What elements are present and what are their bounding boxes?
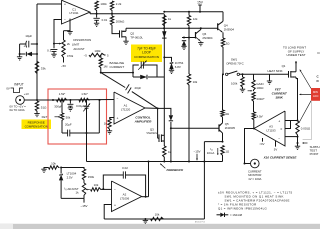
A3 0V stub — [262, 138, 264, 142]
svg-text:200kΩ: 200kΩ — [116, 19, 125, 23]
wire comp network right side — [98, 100, 100, 133]
wire C1 + input — [37, 3, 62, 5]
wire 1k clamp column — [163, 14, 165, 146]
ground tap on gate line — [269, 74, 271, 81]
svg-text:470k: 470k — [67, 54, 74, 58]
svg-text:10k: 10k — [94, 183, 99, 187]
svg-text:10µF: 10µF — [25, 34, 32, 38]
diode at input filter (1N4148) — [20, 53, 26, 55]
resistor 4.5k* — [252, 112, 255, 121]
op-amp A2 LT1006 — [112, 181, 142, 212]
wire BNC to input node — [24, 99, 53, 101]
thermal switch SW1 — [222, 73, 224, 75]
response compensation highlight (yellow) — [22, 120, 52, 130]
svg-text:100k: 100k — [100, 2, 107, 6]
svg-text:2N3904: 2N3904 — [224, 28, 235, 32]
svg-text:= 1N4148: = 1N4148 — [230, 213, 242, 217]
svg-text:FET: FET — [42, 115, 48, 119]
wire baseline node to compensation loop — [101, 72, 133, 74]
loop compensation highlight (yellow) — [131, 45, 162, 63]
svg-text:≈0V: ≈0V — [260, 142, 265, 146]
wire 15V rail — [164, 11, 223, 13]
resistor 10k to A2 inverting input — [102, 188, 112, 190]
diode legend 1N4148 — [217, 214, 221, 216]
resistor 3 ohm at Q5 emitter — [221, 110, 224, 118]
svg-text:100k: 100k — [94, 49, 101, 53]
resistor 33k — [35, 62, 38, 75]
transistor Q2 TP-0610L (P-MOSFET) — [112, 26, 120, 34]
svg-text:10k: 10k — [51, 161, 56, 165]
pot 2k dissipation limit adjust with 470k — [64, 30, 71, 32]
callout arrow to source column — [299, 93, 311, 95]
diode clamp at Q6 base — [182, 37, 196, 39]
svg-text:10k: 10k — [193, 80, 198, 84]
svg-text:LT1011: LT1011 — [69, 11, 79, 15]
diode clamp at 1k — [162, 31, 166, 38]
svg-text:100Ω: 100Ω — [256, 86, 264, 90]
callout leader to sense resistor top — [299, 101, 311, 123]
ground at sense resistor — [297, 143, 299, 146]
svg-text:150k: 150k — [88, 175, 95, 179]
svg-text:432Ω*: 432Ω* — [256, 97, 265, 101]
svg-text:+: + — [117, 117, 119, 121]
capacitor 0.01 at C1 output — [96, 14, 98, 18]
callout leader to Q1 — [300, 70, 311, 89]
wire to zener column — [157, 76, 164, 78]
quiescent current IQ 10mA bracket — [222, 141, 224, 143]
svg-text:Q1: Q1 — [282, 64, 286, 68]
wire input column up — [36, 4, 38, 100]
resistor 1k at Q3 source — [163, 146, 166, 158]
svg-text:ACC: ACC — [313, 94, 319, 98]
supply test point label — [302, 142, 307, 144]
svg-text:COMPENSATION: COMPENSATION — [25, 124, 48, 128]
wire C1 - input — [54, 20, 62, 49]
svg-text:0.02: 0.02 — [122, 166, 128, 170]
resistor 100k pullup — [95, 1, 98, 11]
op-amp C1 LT1011 — [62, 0, 91, 24]
resistor 0.001 ohm current sense — [296, 121, 299, 136]
resistor 10k bottom — [151, 217, 165, 220]
-15V supply rail — [87, 161, 223, 163]
diode parallel with trimmer — [133, 76, 140, 78]
red callout rectangle around compensation network — [48, 89, 107, 144]
svg-text:SINK: SINK — [275, 95, 283, 99]
resistor 1 ohm at Q5 collector — [221, 146, 224, 157]
svg-text:+: + — [114, 204, 116, 208]
svg-text:1k: 1k — [76, 191, 80, 195]
svg-text:+: + — [23, 44, 25, 48]
svg-text:Q3: Q3 — [150, 127, 154, 131]
svg-text:AN104 F05: AN104 F05 — [195, 220, 206, 223]
svg-text:−15V: −15V — [80, 204, 87, 208]
op-amp A3 LT1193 current sense (points left) — [254, 111, 285, 146]
wire C1 output — [89, 12, 91, 14]
diode at A1 output node — [158, 108, 171, 115]
wire A2 output to feedback rail — [142, 196, 149, 198]
resistor 10k at LT1004 — [49, 166, 60, 169]
svg-text:2k: 2k — [67, 42, 71, 46]
svg-text:1M: 1M — [103, 65, 108, 69]
svg-text:100k: 100k — [231, 82, 238, 86]
svg-text:50k: 50k — [66, 115, 71, 119]
svg-text:33k: 33k — [41, 67, 46, 71]
reference LT1004 2.5V — [60, 180, 62, 198]
svg-text:INPUT: INPUT — [14, 83, 24, 87]
transistor Q6 2N3904 — [195, 32, 197, 39]
resistor 1.5k second — [79, 98, 90, 101]
resistor 1k at A1 + input — [110, 117, 115, 119]
resistor 3 ohm at Q4 — [221, 38, 224, 48]
svg-text:−: − — [64, 18, 66, 22]
svg-text:20pF: 20pF — [135, 86, 142, 90]
trimmer capacitor 7-45pF — [133, 65, 139, 77]
svg-text:CURRENT: CURRENT — [110, 65, 125, 69]
svg-text:−15V: −15V — [193, 150, 200, 154]
svg-text:HEAT SINK: HEAT SINK — [268, 69, 283, 73]
ground under C1 — [69, 19, 71, 32]
svg-text:OPENS 70°C: OPENS 70°C — [226, 62, 243, 66]
input BNC connector — [16, 96, 25, 105]
op-amp A1 LT1220 control amplifier — [114, 92, 145, 124]
A3 kelvin sense wires — [285, 120, 298, 122]
resistor 200k — [110, 16, 113, 26]
resistor 10k to zener node — [187, 74, 190, 86]
svg-text:10mA: 10mA — [207, 151, 215, 155]
transistor Q1 power MOSFET heat sink — [288, 71, 290, 78]
svg-text:1.5k*: 1.5k* — [59, 92, 66, 96]
resistor 1.5k first — [57, 98, 68, 101]
resistor 432 ohm* — [252, 92, 255, 102]
svg-text:COMPENSATION: COMPENSATION — [134, 55, 159, 59]
wire A1 inverting input — [53, 99, 114, 102]
bottom wire — [104, 218, 204, 220]
svg-text:0V: 0V — [6, 87, 10, 91]
svg-text:LT1006: LT1006 — [120, 197, 130, 201]
svg-text:51Ω: 51Ω — [41, 106, 47, 110]
ground at 10uF — [19, 54, 21, 57]
svg-text:2.5V: 2.5V — [67, 176, 73, 180]
svg-text:2N2905: 2N2905 — [225, 126, 236, 130]
svg-text:1k: 1k — [104, 121, 108, 125]
ground under 51 ohm — [36, 112, 38, 114]
transistor Q4 2N3904 — [222, 12, 224, 21]
svg-text:0.001Ω: 0.001Ω — [301, 127, 311, 131]
wire 12k column down — [188, 12, 190, 16]
svg-text:6.8V: 6.8V — [175, 65, 181, 69]
transistor Q3 VN2222L (N-MOSFET) — [157, 108, 159, 138]
svg-text:TP-0610L: TP-0610L — [130, 36, 143, 40]
svg-text:LIMIT: LIMIT — [72, 43, 80, 47]
svg-text:−: − — [278, 136, 280, 140]
svg-text:ADJUST: ADJUST — [73, 47, 84, 51]
red annotation box at right edge — [311, 88, 320, 101]
wire SW1 to Q1 gate — [240, 73, 289, 75]
svg-text:0.01: 0.01 — [102, 18, 108, 22]
ground at bottom wire — [144, 219, 146, 220]
current monitor BNC output — [251, 159, 260, 168]
svg-text:+1V: +1V — [24, 92, 29, 96]
svg-text:+: + — [64, 3, 66, 7]
svg-text:−: − — [114, 188, 116, 192]
pot 100 ohm gain with 432 ohm — [253, 74, 255, 80]
svg-text:DISSIPATION: DISSIPATION — [73, 38, 91, 42]
svg-text:15V: 15V — [197, 0, 204, 4]
wire Q1 drain to load — [295, 62, 297, 72]
svg-text:VN2222L: VN2222L — [146, 131, 157, 135]
transistor Q5 2N2905 (PNP) — [218, 124, 220, 131]
svg-text:FEEDBACK: FEEDBACK — [167, 168, 185, 172]
wire pot bottom to -15V — [61, 197, 84, 199]
capacitor 300pF — [69, 100, 71, 104]
page bottom edge bar — [0, 224, 320, 229]
svg-text:−5: −5 — [84, 53, 88, 57]
wire A1 output — [145, 107, 158, 109]
svg-text:Q1 = INFINEON IPB015N04LG: Q1 = INFINEON IPB015N04LG — [218, 207, 268, 211]
wire Q1 source to sense resistor — [295, 77, 297, 79]
svg-text:MIN: MIN — [313, 90, 318, 94]
svg-text:2.2k: 2.2k — [116, 2, 122, 6]
svg-text:+: + — [278, 119, 280, 123]
zener 1N754 6.8V — [164, 57, 171, 61]
svg-text:4.5k*: 4.5k* — [257, 115, 264, 119]
wire A2 + input to bottom rail — [104, 205, 111, 220]
resistor 2.2k — [110, 1, 113, 11]
svg-text:5V: 5V — [274, 148, 278, 152]
pot 1k IQ adjust with 150k — [61, 168, 84, 170]
svg-text:20µF: 20µF — [65, 123, 72, 127]
svg-text:12k: 12k — [193, 17, 198, 21]
wire A3 output to current monitor — [245, 129, 255, 164]
svg-text:AMPLIFIER: AMPLIFIER — [134, 119, 152, 123]
resistor 100k gate pulldown — [242, 74, 244, 77]
wire to Q5 base — [171, 127, 219, 129]
svg-text:0A TO 100A: 0A TO 100A — [10, 108, 25, 112]
svg-text:2N3904: 2N3904 — [202, 36, 213, 40]
svg-text:−5V: −5V — [61, 64, 66, 68]
A3 5V supply stub — [275, 141, 277, 147]
wire comp network to -15V rail — [86, 133, 88, 162]
svg-text:10k: 10k — [155, 212, 160, 216]
svg-text:300pF: 300pF — [54, 104, 62, 108]
resistor 1k clamp — [163, 15, 166, 26]
pot 50k response compensation — [61, 100, 63, 113]
resistor 12k — [187, 15, 190, 26]
svg-text:1V = 100A: 1V = 100A — [248, 177, 261, 181]
wire Q2 to Q4 base rail — [126, 27, 218, 29]
svg-text:LT1220: LT1220 — [121, 108, 131, 112]
svg-text:POINT: POINT — [310, 152, 319, 156]
svg-text:X10 CURRENT SENSE: X10 CURRENT SENSE — [263, 155, 298, 159]
svg-text:1.5k*: 1.5k* — [81, 92, 88, 96]
svg-text:−: − — [117, 97, 119, 101]
resistor 1M baseline — [100, 55, 102, 58]
resistor 51 ohm — [35, 101, 38, 112]
svg-text:UNDER TEST: UNDER TEST — [286, 53, 305, 57]
callout leader to sense resistor bottom (grey) — [303, 101, 312, 140]
svg-text:LT1193: LT1193 — [266, 129, 276, 133]
input pulse waveform symbol — [11, 88, 24, 93]
capacitor 20pF feedback (diagonal) — [101, 73, 125, 88]
